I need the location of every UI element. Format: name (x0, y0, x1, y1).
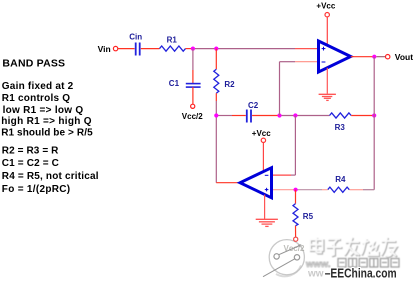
U1 minus sign (322, 61, 326, 63)
wire U2 output riser (215, 101, 217, 183)
svg-text:R1: R1 (167, 35, 178, 44)
capacitor C1 (186, 84, 201, 88)
junction Vout (372, 55, 376, 59)
wire Vout riser vertical (373, 57, 375, 190)
resistor R1 (160, 46, 186, 51)
svg-text:–EEChina.com: –EEChina.com (325, 267, 397, 281)
svg-text:Vout: Vout (395, 52, 413, 62)
wire U2 output horizontal (216, 182, 240, 184)
wire U2 ground stem (264, 195, 266, 219)
wire U1 output (351, 56, 373, 58)
svg-text:C1 = C2 = C: C1 = C2 = C (2, 158, 59, 169)
svg-text:R4: R4 (335, 175, 346, 184)
svg-text:R2: R2 (224, 80, 235, 89)
wire Vin to Cin (118, 48, 135, 50)
op-amp U2 (240, 168, 271, 198)
svg-text:Cin: Cin (129, 32, 142, 41)
svg-text:Vin: Vin (98, 44, 111, 54)
junction node R2 top (214, 47, 218, 51)
wire R5 top stem (295, 190, 297, 204)
watermark logo arrowhead (298, 244, 302, 247)
watermark logo diagonal line 1 (279, 246, 299, 255)
watermark logo ring left (274, 254, 279, 259)
terminal Vcc/2 under C1 (191, 104, 195, 108)
junction U2minus branch (293, 113, 297, 117)
wire C1 to Vcc/2 terminal (192, 87, 194, 104)
ground U2 (256, 219, 278, 226)
svg-text:Vcc/2: Vcc/2 (182, 112, 203, 121)
svg-text:R1 controls Q: R1 controls Q (2, 93, 70, 104)
svg-text:R1 should be > R/5: R1 should be > R/5 (1, 128, 93, 139)
svg-text:R2 = R3 = R: R2 = R3 = R (2, 145, 59, 156)
resistor R2 (214, 69, 219, 93)
svg-text:R5: R5 (303, 212, 314, 221)
watermark logo diagonal line 2 (263, 259, 295, 277)
U2 plus sign (265, 188, 269, 192)
junction node A (191, 47, 195, 51)
wire U2 minus vertical (294, 116, 296, 176)
wire R2 top stem (215, 49, 217, 70)
wire junction to U2 plus input (272, 189, 296, 191)
svg-text:R3: R3 (335, 123, 346, 132)
wire R4 left to junction (296, 189, 322, 191)
resistor R5 (293, 204, 298, 226)
terminal Vcc/2 under R5 (294, 237, 298, 241)
wire +Vcc to U2 (262, 143, 264, 172)
wire U1 minus input vertical (279, 62, 281, 116)
wire mid rail to C2 (216, 115, 232, 117)
watermark logo ring right (294, 255, 299, 260)
svg-text:C2: C2 (248, 101, 259, 110)
capacitor Cin (136, 43, 140, 56)
junction mid rail at R2/U2out (214, 113, 218, 117)
svg-text:+Vcc: +Vcc (252, 129, 271, 138)
svg-text:C1: C1 (169, 79, 180, 88)
capacitor C2 (247, 110, 251, 123)
wire +Vcc to U1 (326, 17, 328, 45)
svg-text:Gain fixed at 2: Gain fixed at 2 (2, 81, 74, 92)
svg-text:+Vcc: +Vcc (316, 1, 335, 10)
wire mid rail maroon segment (280, 115, 330, 117)
watermark logo circle (269, 240, 304, 277)
terminal Vin (113, 46, 117, 50)
resistor R3 (330, 113, 352, 118)
terminal Vout (386, 55, 390, 59)
svg-text:BAND PASS: BAND PASS (2, 57, 65, 69)
terminal +Vcc U1 (325, 13, 329, 17)
ground U1 (319, 94, 336, 100)
junction U2 plus/R4/R5 (294, 188, 298, 192)
svg-text:ww: ww (307, 269, 324, 280)
svg-text:high R1 => high Q: high R1 => high Q (1, 116, 92, 127)
wire U1 ground stem (326, 68, 328, 94)
wire U1 minus input horizontal (280, 61, 296, 63)
wire U2 minus horizontal (272, 174, 291, 176)
wire Vout link (376, 56, 385, 58)
junction R3/Vout riser (372, 113, 376, 117)
svg-text:Fo = 1/(2pRC): Fo = 1/(2pRC) (2, 184, 71, 195)
wire R2 bottom stem (215, 93, 217, 101)
wire R3 to Vout riser (351, 115, 374, 117)
wire R5 bottom stem (295, 226, 297, 237)
wire R4 right horizontal (349, 189, 363, 191)
wire C2 to U1 minus branch (252, 115, 279, 117)
svg-text:low R1 => low Q: low R1 => low Q (3, 105, 84, 116)
watermark chinese text highlight (310, 237, 396, 256)
watermark chinese text emboss shadow (311, 238, 397, 257)
wire node A down to C1 (192, 49, 194, 70)
resistor R4 (328, 187, 350, 192)
op-amp U1 (319, 41, 351, 72)
wire top rail node A to U1 plus input (193, 48, 295, 50)
junction C2/U1minus (277, 113, 281, 117)
wire Cin to R1 (141, 48, 160, 50)
wire R1 to node A (186, 48, 193, 50)
terminal +Vcc U2 (261, 138, 265, 142)
watermark small row glyph blocks (338, 259, 399, 268)
U1 plus sign (322, 47, 326, 51)
svg-text:R4 = R5, not critical: R4 = R5, not critical (2, 171, 99, 182)
U2 minus sign (265, 174, 269, 176)
